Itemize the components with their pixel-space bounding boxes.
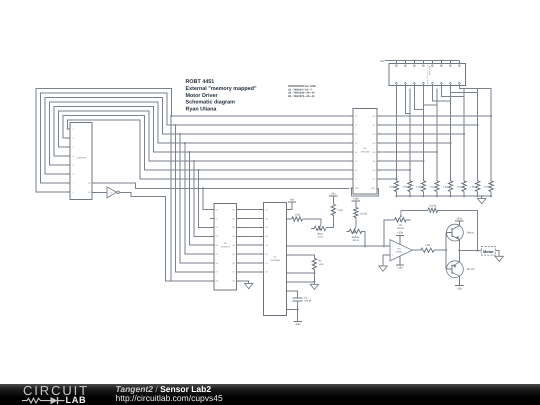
- svg-text:CUSTOM: CUSTOM: [76, 157, 86, 160]
- resistor R1k pull-down 4: [429, 181, 439, 196]
- wire inverter output to U5 pin9: [119, 192, 209, 280]
- wire bus A1 (custom pin 8 to U4/U5): [36, 89, 349, 281]
- title text block: [186, 79, 257, 113]
- wire pack pin 7 to pull column 7: [450, 84, 477, 181]
- wire bus A2 (custom pin 7 to U4/U5): [41, 93, 350, 272]
- wire bus A5 (custom pin 4 to U4/U5): [54, 107, 349, 246]
- resistor R1 1 kΩ pull-up: [326, 192, 343, 227]
- wire pull-down bottom rail: [395, 195, 492, 197]
- wire base tie Q1-Q2: [445, 233, 447, 270]
- resistor R5 10 kΩ: [352, 198, 367, 224]
- svg-text:Motor Driver: Motor Driver: [186, 93, 219, 99]
- resistor R1k pull-down 7: [470, 181, 480, 196]
- wire U4 output O4 to column: [381, 151, 438, 153]
- resistor R1k pull-down 6: [456, 181, 466, 196]
- wires U5 outputs to DAC inputs: [240, 210, 259, 272]
- wire U4 output O1 to column: [381, 124, 479, 126]
- svg-text:TIP102: TIP102: [466, 231, 474, 234]
- svg-text:+15v: +15v: [353, 198, 360, 201]
- wire CE net (custom CE to U4 OE and U5 pin1): [96, 183, 349, 210]
- wire pack pin 3 to pull column 3: [414, 84, 423, 181]
- svg-text:10 kΩ: 10 kΩ: [360, 213, 367, 216]
- svg-text:1 kΩ: 1 kΩ: [337, 209, 342, 212]
- svg-text:3.3 kΩ: 3.3 kΩ: [429, 204, 436, 207]
- wire column 7 vertical: [477, 88, 479, 181]
- resistor R6 3.3 kΩ feedback: [401, 204, 479, 251]
- svg-text:1 kΩ: 1 kΩ: [443, 186, 448, 189]
- wire bus A7 (custom pin 2 to U4/U5): [63, 116, 349, 228]
- svg-text:U1: U1: [109, 191, 111, 194]
- ground at pull-down rail: [478, 195, 486, 204]
- legend text Vcc COM table: [288, 85, 315, 98]
- svg-text:1 kΩ: 1 kΩ: [470, 186, 475, 189]
- ground at DAC compensation: [291, 273, 319, 289]
- wire column 2 vertical: [409, 88, 411, 181]
- svg-text:LAB: LAB: [66, 395, 87, 405]
- svg-text:1 kΩ: 1 kΩ: [484, 186, 489, 189]
- ground at op-amp + input: [379, 255, 387, 271]
- wire bus A4 (custom pin 5 to U4/U5): [50, 102, 350, 254]
- svg-text:RP1 8x1k: RP1 8x1k: [428, 66, 431, 76]
- wire column 1 vertical: [395, 110, 397, 181]
- svg-text:TIP 107: TIP 107: [466, 268, 475, 271]
- svg-text:1 kΩ: 1 kΩ: [456, 186, 461, 189]
- wire pack pin 8 to pull column 8: [459, 84, 491, 181]
- resistor pack RP1 with +5v rail: [380, 60, 466, 86]
- wire output node to motor: [459, 249, 481, 251]
- svg-text:ROBT 4451: ROBT 4451: [186, 79, 215, 85]
- trimmer Rbal 1 kΩ: [311, 219, 326, 239]
- svg-text:-15v: -15v: [397, 267, 403, 270]
- wire column 8 vertical: [490, 88, 492, 181]
- svg-text:1 kΩ: 1 kΩ: [402, 186, 407, 189]
- wire column 5 vertical: [450, 88, 452, 181]
- svg-text:1 kΩ: 1 kΩ: [294, 213, 299, 216]
- svg-text:-15v: -15v: [295, 323, 301, 326]
- svg-text:10 kΩ: 10 kΩ: [397, 227, 404, 230]
- wire bus A8 (custom pin 1 to U4/U5): [67, 120, 350, 179]
- wire U4 output O0 to column: [381, 115, 492, 117]
- transistor Q2 TIP107: [447, 261, 476, 291]
- wire column 6 vertical: [463, 88, 465, 181]
- resistor R2 1 kΩ at DAC: [291, 255, 324, 274]
- svg-text:+15v: +15v: [456, 217, 463, 220]
- svg-text:1 kΩ: 1 kΩ: [389, 186, 394, 189]
- wire column 4 vertical: [436, 88, 438, 181]
- svg-text:74HC244: 74HC244: [360, 150, 370, 153]
- power -15v at DAC: [291, 309, 302, 326]
- svg-text:1 kΩ: 1 kΩ: [429, 186, 434, 189]
- op-amp OA1 LM741: [386, 232, 412, 270]
- resistor R1k pull-down 1: [389, 181, 399, 196]
- wire pack pin 5 to pull column 5: [432, 84, 450, 181]
- svg-text:+15v: +15v: [397, 232, 404, 235]
- svg-text:10 kΩ: 10 kΩ: [352, 239, 359, 242]
- ground at U5: [240, 281, 253, 289]
- svg-text:http://circuitlab.com/cupvs45: http://circuitlab.com/cupvs45: [116, 393, 224, 403]
- svg-text:74HC373: 74HC373: [220, 246, 230, 249]
- svg-text:External "memory mapped": External "memory mapped": [186, 86, 257, 92]
- wire bus A3 (custom pin 6 to U4/U5): [45, 98, 349, 264]
- svg-text:Ryan Uliana: Ryan Uliana: [186, 107, 218, 113]
- wire DAC pin to R2 bottom: [291, 272, 315, 274]
- wire U4 output O6 to column: [381, 169, 411, 171]
- svg-text:+5v: +5v: [290, 198, 295, 201]
- resistor R3 1 kΩ: [291, 213, 322, 221]
- power +5v at DAC: [288, 198, 296, 209]
- svg-text:DAC0808: DAC0808: [270, 259, 280, 262]
- ground at motor: [495, 250, 503, 261]
- svg-text:Motor: Motor: [483, 250, 494, 254]
- wire U4 output O5 to column: [381, 160, 424, 162]
- resistor R1k pull-down 2: [402, 181, 412, 196]
- CircuitLab logo: [0, 383, 260, 405]
- buffer U4 74HC244: [349, 108, 381, 194]
- svg-text:LM741: LM741: [396, 251, 403, 254]
- footer bar: [0, 384, 540, 405]
- wire U4 output O7 to column: [381, 178, 397, 180]
- svg-text:OA1: OA1: [397, 247, 402, 250]
- svg-text:1 kΩ: 1 kΩ: [318, 236, 323, 239]
- wire DAC Io to op-amp inverting input: [291, 245, 387, 247]
- svg-text:1 kΩ: 1 kΩ: [425, 244, 430, 247]
- svg-text:1 kΩ: 1 kΩ: [416, 186, 421, 189]
- wire pack pin 2 to pull column 2: [405, 84, 410, 181]
- wire U4 output O3 to column: [381, 142, 452, 144]
- DAC U2 DAC0808: [260, 202, 291, 315]
- svg-text:+5v: +5v: [331, 192, 336, 195]
- wire U4 OE1-OE2 tie loop: [350, 187, 378, 196]
- resistor R1k pull-down 8: [484, 181, 494, 196]
- wire pack pin 1 to pull column 1: [395, 84, 397, 110]
- svg-text:1 kΩ: 1 kΩ: [318, 263, 323, 266]
- wire U4 output O2 to column: [381, 133, 465, 135]
- transistor Q1 TIP102: [447, 217, 475, 241]
- resistor R4 1 kΩ op-amp output: [412, 244, 446, 252]
- custom memory-mapped IC P1: [67, 123, 97, 200]
- wire pack pin 6 to pull column 6: [441, 84, 464, 181]
- inverter U1 74HC04: [96, 187, 119, 198]
- resistor R1k pull-down 5: [443, 181, 453, 196]
- wire bus A6 (custom pin 3 to U4/U5): [59, 111, 350, 236]
- svg-text:+5v: +5v: [380, 60, 385, 63]
- resistor R1k pull-down 3: [416, 181, 426, 196]
- svg-text:Schematic diagram: Schematic diagram: [186, 100, 236, 106]
- motor M1 load box: [481, 247, 495, 256]
- capacitor C1 100 pF: [291, 291, 313, 310]
- trimmer Roffset 10 kΩ: [346, 224, 366, 247]
- wire emitter junction node: [458, 241, 460, 261]
- latch U5 74HC373: [210, 204, 241, 290]
- svg-text:-15v: -15v: [457, 287, 463, 290]
- trimmer Rf 10 kΩ feedback: [383, 210, 410, 247]
- svg-text:U5 - 74HC373—20—10: U5 - 74HC373—20—10: [288, 95, 315, 98]
- wire pack pin 4 to pull column 4: [423, 84, 437, 181]
- svg-text:100 pF: 100 pF: [304, 300, 312, 303]
- wire column 3 vertical: [422, 88, 424, 181]
